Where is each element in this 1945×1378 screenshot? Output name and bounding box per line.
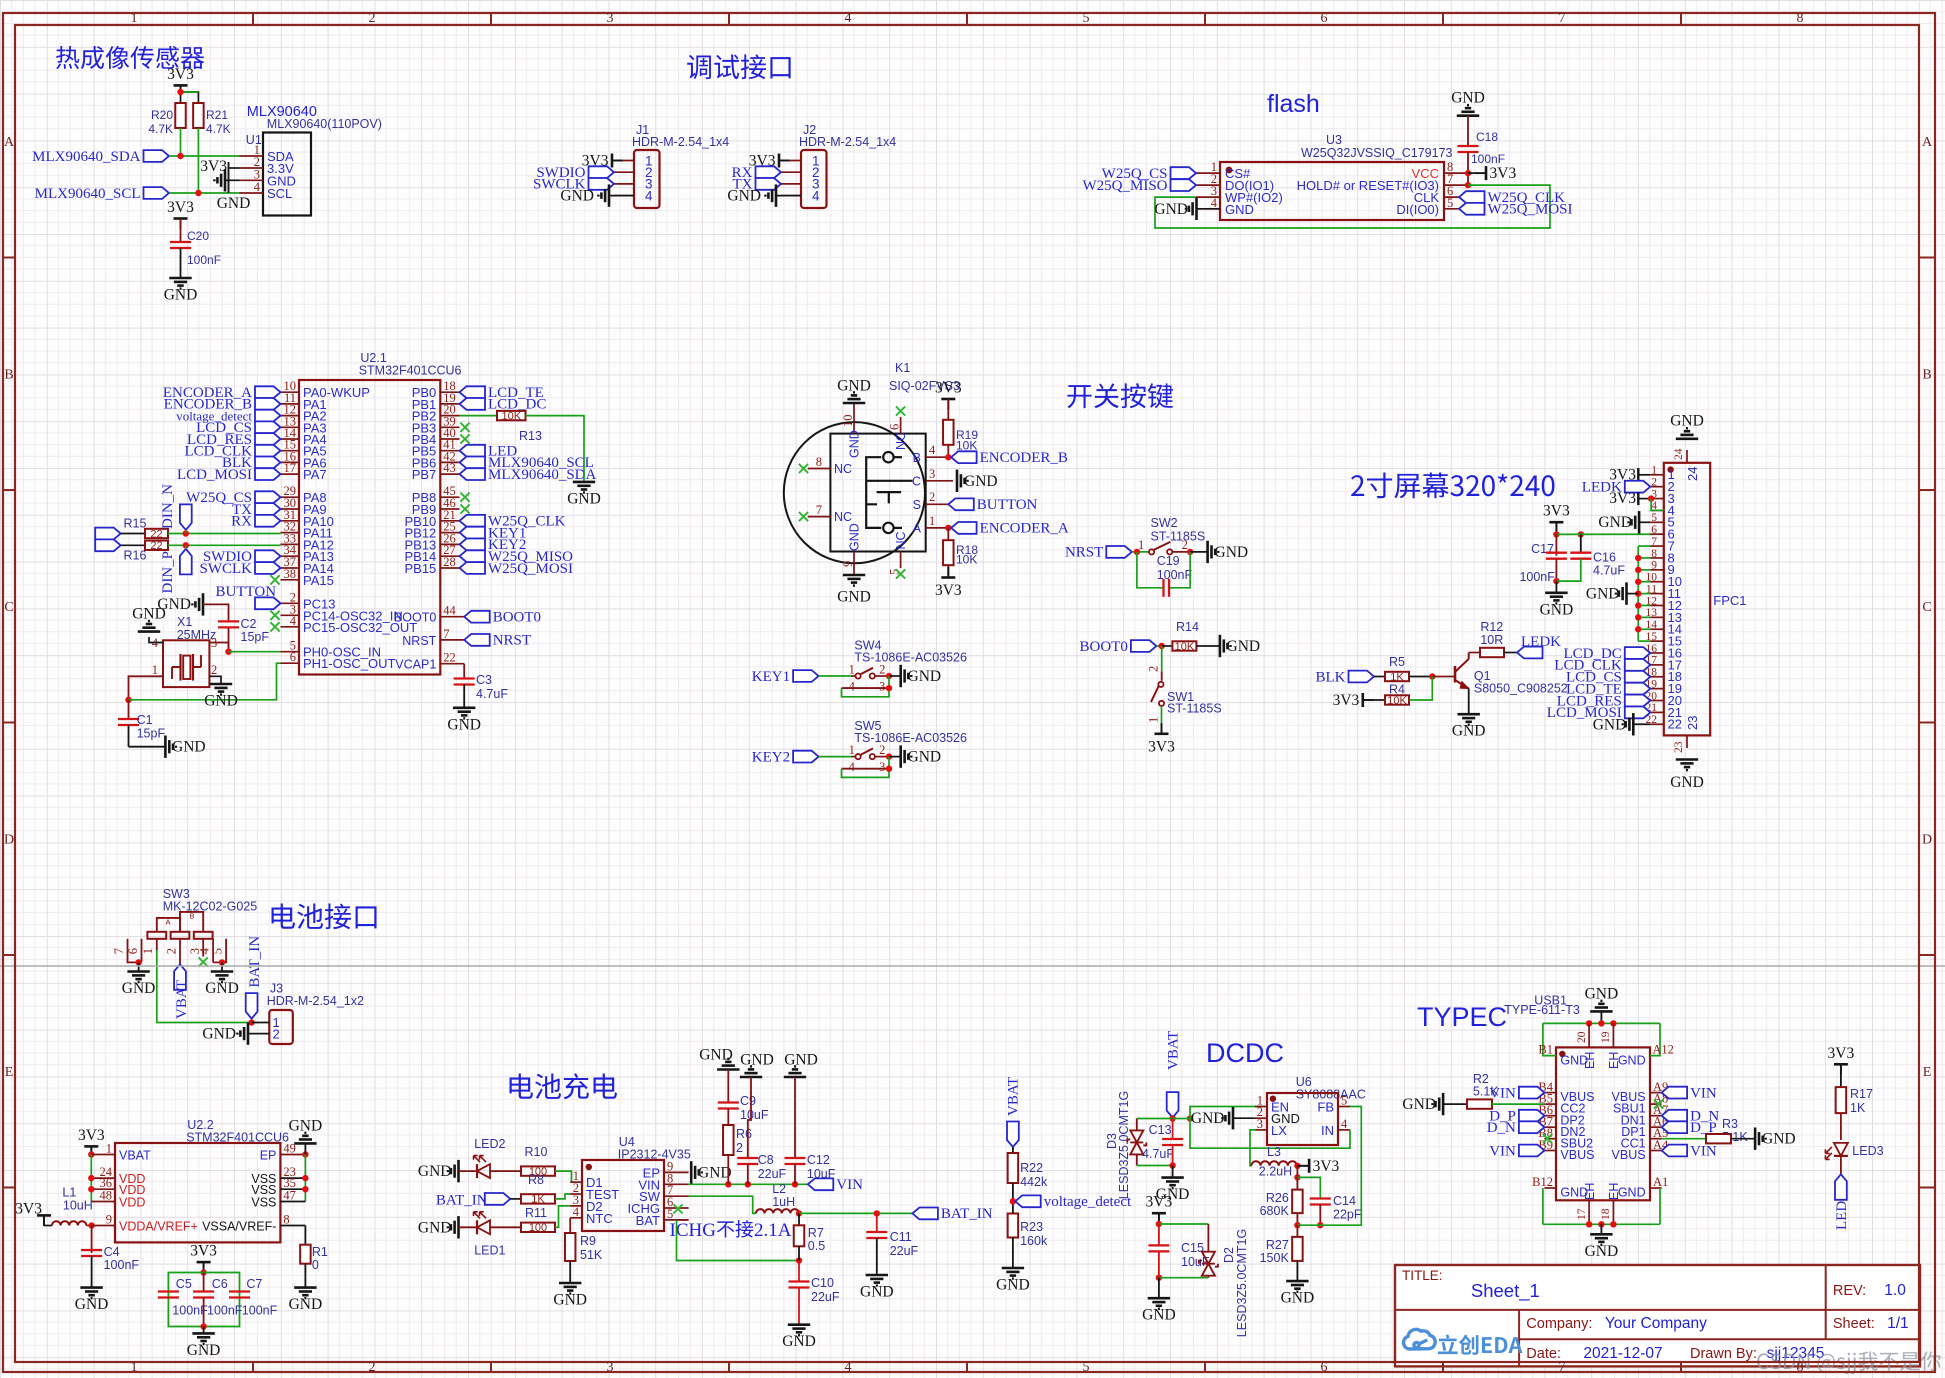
svg-text:10uH: 10uH: [63, 1198, 93, 1212]
capacitor C1 15pF: [128, 700, 130, 719]
net flag W25Q_CLK: [460, 515, 486, 527]
svg-text:R6: R6: [736, 1127, 752, 1141]
ground U6 pin2: [1233, 1117, 1255, 1119]
U1 pin 2 3.3V: [240, 167, 264, 169]
net flag NRST sw2: [1106, 546, 1132, 558]
U2.1 pin 21 PB10: [440, 520, 459, 522]
no-connect PB3: [460, 423, 469, 432]
svg-text:GND: GND: [1586, 586, 1620, 603]
svg-text:R11: R11: [525, 1206, 547, 1220]
FPC1 pin23 bottom: [1686, 735, 1688, 748]
svg-text:22: 22: [443, 651, 456, 665]
svg-text:R5: R5: [1389, 655, 1405, 669]
net flag VIN B9: [1519, 1145, 1545, 1157]
ground SW4: [889, 675, 901, 677]
svg-text:2: 2: [879, 743, 885, 757]
svg-text:RX: RX: [231, 514, 252, 530]
svg-text:W25Q_MOSI: W25Q_MOSI: [488, 561, 573, 577]
U2.1 pin 26 PB13: [440, 543, 459, 545]
net flag VIN A9: [1662, 1087, 1688, 1099]
K1 inner mechanism: [866, 457, 912, 528]
svg-text:D_N: D_N: [1487, 1120, 1516, 1136]
USB1 pin A9 VBUS: [1650, 1092, 1662, 1094]
svg-text:DI(IO0): DI(IO0): [1396, 202, 1439, 217]
ground above C8: [740, 1066, 762, 1077]
svg-text:100nF: 100nF: [187, 253, 221, 267]
capacitor C12 10uF: [785, 1157, 806, 1159]
USB1 pin B5 CC2: [1544, 1103, 1556, 1105]
ground above C18: [1457, 105, 1479, 116]
svg-text:GND: GND: [172, 739, 206, 756]
ground below R9: [559, 1283, 581, 1294]
U4 pin 9 EP: [664, 1171, 689, 1173]
FPC1 pin 20: [1650, 700, 1664, 702]
svg-text:NC: NC: [834, 510, 852, 524]
svg-text:1uH: 1uH: [772, 1195, 795, 1209]
ground fpc pin24: [1676, 428, 1698, 439]
U2.1 pin 4 PC15-OSC32_OUT: [281, 626, 300, 628]
svg-text:GND: GND: [1762, 1131, 1796, 1148]
svg-text:GND: GND: [1225, 202, 1254, 217]
net flag BAT_IN main: [912, 1208, 938, 1220]
ground top rail: [1590, 1001, 1612, 1012]
K1 pin7 NC left: [808, 516, 831, 518]
power flag 3V3 top: [174, 85, 188, 96]
U4 pin 5 BAT: [664, 1219, 689, 1221]
svg-text:47: 47: [283, 1189, 296, 1203]
svg-text:GND: GND: [964, 473, 998, 490]
resistor R23 160k: [1008, 1214, 1019, 1238]
U2.1 pin 42 PB6: [440, 461, 459, 463]
USB1 pin B9 VBUS: [1544, 1150, 1556, 1152]
svg-text:E: E: [1923, 1065, 1932, 1080]
no-connect PB9: [460, 504, 469, 513]
junction J3 pin1: [248, 1019, 254, 1025]
svg-text:GND: GND: [553, 1292, 587, 1309]
net flag D_N B7: [1519, 1121, 1545, 1133]
svg-text:1: 1: [849, 743, 855, 757]
svg-text:44: 44: [443, 604, 456, 618]
USB1 pin B4 VBUS: [1544, 1092, 1556, 1094]
svg-text:2.1A: 2.1A: [754, 1220, 792, 1241]
svg-text:GND: GND: [996, 1277, 1030, 1294]
svg-text:GND: GND: [164, 287, 198, 304]
junction VDDA: [88, 1222, 94, 1228]
U2.2 pin9 VDDA: [92, 1225, 115, 1227]
ground below C10: [788, 1325, 810, 1336]
junction fpc pin 12: [1635, 602, 1641, 608]
K1 pin3 C: [926, 480, 953, 482]
svg-text:43: 43: [443, 461, 456, 475]
power 3V3 R4: [1363, 693, 1374, 707]
svg-text:R1: R1: [312, 1245, 328, 1259]
junction 3V3 node: [177, 89, 183, 95]
svg-text:4.7uF: 4.7uF: [1142, 1147, 1174, 1161]
svg-text:PA15: PA15: [303, 573, 334, 588]
net flag SWDIO pin2: [589, 166, 615, 178]
svg-text:4: 4: [849, 679, 856, 693]
ground bottom: [1600, 1224, 1602, 1234]
ground above EP: [294, 1133, 316, 1144]
svg-text:3V3: 3V3: [15, 1201, 42, 1218]
page boundary gray line: [0, 965, 1945, 967]
net flag W25Q_CS: [1171, 167, 1197, 179]
svg-text:S: S: [913, 498, 921, 512]
junction SW4 pin2: [886, 673, 892, 679]
U2.1 pin 19 PB1: [440, 403, 459, 405]
resistor R20: [175, 103, 186, 128]
svg-text:22: 22: [150, 528, 162, 540]
svg-text:B12: B12: [1532, 1175, 1553, 1189]
svg-text:6: 6: [1321, 11, 1328, 26]
svg-text:TS-1086E-AC03526: TS-1086E-AC03526: [854, 650, 967, 664]
svg-text:22uF: 22uF: [890, 1244, 919, 1258]
USB1 pin A8 SBU1: [1650, 1103, 1662, 1105]
svg-text:6: 6: [290, 650, 296, 664]
J1 pin 1: [614, 160, 634, 162]
wire GND to C18: [1467, 116, 1469, 146]
net flag KEY1: [793, 670, 819, 682]
net flag VBAT r22: [1007, 1122, 1019, 1148]
ground below C5C6C7: [203, 1327, 205, 1334]
net flag NRST: [464, 634, 490, 646]
svg-text:GND: GND: [1618, 1186, 1646, 1200]
svg-text:VBUS: VBUS: [1560, 1148, 1594, 1162]
svg-text:GND: GND: [447, 716, 481, 733]
net flag VIN A4: [1662, 1145, 1688, 1157]
junction R6: [725, 1181, 731, 1187]
power 3V3 u22: [84, 1146, 98, 1157]
svg-text:ST-1185S: ST-1185S: [1151, 530, 1206, 544]
svg-text:22: 22: [1668, 717, 1682, 732]
power 3V3 J1 pin1: [612, 154, 623, 168]
net flag LCD_MOSI: [255, 468, 281, 480]
svg-text:3V3: 3V3: [935, 380, 962, 397]
wire junction to PH0 pin: [229, 651, 281, 653]
ground below R27: [1286, 1281, 1308, 1292]
net flag LCD_RES fpc: [1625, 695, 1651, 707]
junction VSS35: [302, 1186, 308, 1192]
U2.1 pin 12 PA2: [281, 415, 300, 417]
svg-text:C16: C16: [1593, 550, 1616, 564]
svg-text:3V3: 3V3: [78, 1127, 105, 1144]
svg-text:5: 5: [1083, 11, 1090, 26]
svg-text:PA7: PA7: [303, 467, 327, 482]
svg-text:GND: GND: [740, 1052, 774, 1069]
svg-text:GND: GND: [418, 1163, 452, 1180]
no-connect PB4: [460, 434, 469, 443]
svg-text:2: 2: [273, 1027, 280, 1042]
svg-text:LEDK: LEDK: [1521, 634, 1561, 650]
svg-text:5: 5: [1083, 1360, 1090, 1375]
capacitor C7: [229, 1290, 250, 1292]
USB1 pin A4 VBUS: [1650, 1150, 1662, 1152]
svg-text:4.7K: 4.7K: [148, 122, 173, 136]
resistor R19 10K: [943, 420, 954, 445]
USB1 pin A5 CC1: [1650, 1138, 1662, 1140]
svg-text:2: 2: [211, 663, 217, 677]
svg-text:NC: NC: [894, 432, 908, 450]
svg-text:R8: R8: [528, 1173, 544, 1187]
svg-text:MK-12C02-G025: MK-12C02-G025: [163, 900, 258, 914]
U3 pin 2 DO(IO1): [1196, 184, 1220, 186]
svg-text:DIN_N: DIN_N: [160, 484, 176, 529]
ground below R13: [573, 482, 595, 493]
svg-text:VIN: VIN: [1489, 1143, 1516, 1159]
U2.1 pin 3 PC14-OSC32_IN: [281, 614, 300, 616]
svg-text:5: 5: [667, 1207, 673, 1221]
K1 pin4 B: [926, 456, 949, 458]
svg-text:3: 3: [607, 1360, 614, 1375]
svg-text:R21: R21: [206, 108, 228, 122]
U3 pin 3 WP#(IO2): [1196, 196, 1220, 198]
svg-text:100nF: 100nF: [242, 1304, 278, 1318]
U2.1 pin 39 PB3: [440, 426, 459, 428]
wire SDA to U1 pin1: [169, 155, 240, 157]
svg-text:GND: GND: [1154, 201, 1188, 218]
svg-text:24: 24: [1673, 448, 1685, 460]
junction C17 top: [1553, 531, 1559, 537]
svg-text:4: 4: [573, 1205, 580, 1219]
power 3V3 dcdc out: [1297, 1165, 1309, 1167]
USB1 pin B12 GND: [1544, 1187, 1556, 1189]
svg-text:C: C: [4, 600, 13, 615]
FPC1 pin 12: [1650, 604, 1664, 606]
svg-text:Drawn By:: Drawn By:: [1690, 1346, 1757, 1362]
green bus pins 7-15: [1637, 546, 1639, 641]
ground R3: [1755, 1128, 1766, 1150]
junction fpc pin 13: [1635, 614, 1641, 620]
logo LCEDA text: [1438, 1334, 1522, 1354]
svg-text:GND: GND: [122, 980, 156, 997]
U2.1 pin 11 PA1: [281, 403, 300, 405]
svg-text:MLX90640_SDA: MLX90640_SDA: [488, 467, 597, 483]
svg-text:GND: GND: [1585, 985, 1619, 1002]
svg-text:GND: GND: [908, 749, 942, 766]
svg-text:LESD3Z5.0CMT1G: LESD3Z5.0CMT1G: [1117, 1091, 1131, 1199]
no-connect SBU2: [1543, 1134, 1552, 1143]
FPC1 pin 10: [1650, 581, 1664, 583]
net flag VIN: [808, 1178, 834, 1190]
wire VIN net: [689, 1183, 808, 1185]
K1 pin1 A: [926, 527, 949, 529]
svg-text:C12: C12: [807, 1153, 830, 1167]
svg-text:W25Q32JVSSIQ_C179173: W25Q32JVSSIQ_C179173: [1301, 146, 1453, 160]
USB1 pin B7 DN2: [1544, 1126, 1556, 1128]
wire to C14 top: [1297, 1177, 1320, 1199]
U2.2 pin 36 VDD: [91, 1188, 115, 1190]
svg-text:1: 1: [131, 1360, 138, 1375]
U2.1 pin 16 PA6: [281, 461, 300, 463]
U2.1 pin 15 PA5: [281, 450, 300, 452]
wire D2 bottom rail: [1159, 1277, 1209, 1279]
resistor R7 0.5: [798, 1213, 800, 1225]
svg-text:GND: GND: [1142, 1307, 1176, 1324]
J2 pin 3: [781, 183, 801, 185]
svg-text:E: E: [5, 1065, 14, 1080]
net flag KEY1: [460, 527, 486, 539]
svg-text:8: 8: [816, 455, 822, 469]
svg-text:2021-12-07: 2021-12-07: [1583, 1345, 1662, 1362]
svg-text:W25Q_MOSI: W25Q_MOSI: [1488, 202, 1573, 218]
svg-text:18: 18: [1600, 1208, 1612, 1220]
svg-text:5.1K: 5.1K: [1473, 1085, 1499, 1099]
section title 开关按键: [1067, 383, 1173, 408]
svg-text:2.2uH: 2.2uH: [1259, 1165, 1292, 1179]
svg-text:A12: A12: [1652, 1043, 1674, 1057]
junction L3 out: [1294, 1163, 1300, 1169]
svg-text:22uF: 22uF: [811, 1290, 840, 1304]
svg-text:C4: C4: [104, 1245, 120, 1259]
svg-text:VBAT: VBAT: [174, 980, 190, 1019]
svg-text:GND: GND: [1670, 774, 1704, 791]
svg-text:R12: R12: [1480, 620, 1503, 634]
U4 pin 4 NTC: [570, 1217, 582, 1219]
svg-text:VBAT: VBAT: [119, 1149, 151, 1163]
wire KEY1 to switch: [819, 675, 851, 677]
svg-text:GND: GND: [1191, 1110, 1225, 1127]
U2.1 pin 38 PA15: [281, 579, 300, 581]
svg-text:VSSA/VREF-: VSSA/VREF-: [202, 1220, 276, 1234]
junction voltage_detect: [1010, 1198, 1016, 1204]
FPC1 pin 5: [1650, 521, 1664, 523]
junction pin3/pin4: [1648, 495, 1654, 501]
ground below C4: [80, 1288, 102, 1299]
net flag D_P A6: [1662, 1121, 1688, 1133]
FPC1 pin 16: [1650, 652, 1664, 654]
FPC1 pin 1: [1650, 474, 1664, 476]
FPC1 pin 19: [1650, 688, 1664, 690]
net flag D_N A7: [1662, 1110, 1688, 1122]
svg-text:C7: C7: [246, 1277, 262, 1291]
net flag LEDK right: [1517, 647, 1543, 659]
svg-text:9: 9: [1651, 560, 1657, 572]
wire R2 to CC2: [1492, 1103, 1544, 1105]
junction SW5 pin3: [886, 766, 892, 772]
FPC1 pin 7: [1650, 545, 1664, 547]
net flag ENCODER_B: [951, 451, 977, 463]
svg-text:GND: GND: [1585, 1243, 1619, 1260]
U6 pin 5 FB: [1338, 1106, 1350, 1108]
U2.1 pin 6 PH1-OSC_OUT: [281, 662, 300, 664]
U2.1 pin 17 PA7: [281, 473, 300, 475]
svg-text:8: 8: [1651, 548, 1657, 560]
svg-text:3V3: 3V3: [1828, 1045, 1855, 1062]
U4 pin 2 TEST: [570, 1193, 582, 1195]
svg-text:GND: GND: [1593, 716, 1627, 733]
ground below C20: [169, 278, 191, 289]
svg-text:10K: 10K: [1175, 641, 1195, 653]
svg-text:C17: C17: [1531, 542, 1554, 556]
svg-text:L2: L2: [772, 1182, 786, 1196]
ground SW2: [1190, 551, 1208, 553]
svg-text:GND: GND: [289, 1296, 323, 1313]
no-connect PA15: [270, 575, 279, 584]
svg-text:1K: 1K: [1390, 671, 1404, 683]
U2.1 pin 33 PA12: [281, 543, 300, 545]
svg-text:GND: GND: [698, 1164, 732, 1181]
K1 pin10 GND top: [853, 403, 855, 434]
svg-text:100nF: 100nF: [1471, 152, 1505, 166]
svg-text:TS-1086E-AC03526: TS-1086E-AC03526: [854, 731, 967, 745]
svg-text:3: 3: [1257, 1117, 1263, 1131]
FPC1 pin 14: [1650, 628, 1664, 630]
svg-text:C15: C15: [1181, 1241, 1204, 1255]
ground J2 pin4: [765, 184, 776, 206]
svg-text:R13: R13: [519, 429, 542, 443]
svg-text:BAT_IN: BAT_IN: [436, 1193, 488, 1209]
svg-text:7: 7: [1651, 536, 1657, 548]
svg-text:D2: D2: [1222, 1247, 1236, 1263]
svg-text:3V3: 3V3: [167, 199, 194, 216]
svg-text:K1: K1: [895, 361, 910, 375]
svg-text:38: 38: [284, 567, 297, 581]
svg-text:17: 17: [284, 461, 297, 475]
svg-text:3: 3: [879, 679, 885, 693]
LED3: [1834, 1155, 1848, 1157]
U2.1 pin 7 NRST: [440, 639, 464, 641]
junction VDD24: [88, 1175, 94, 1181]
svg-text:442k: 442k: [1020, 1175, 1048, 1189]
svg-text:A: A: [913, 522, 922, 536]
svg-text:C13: C13: [1149, 1123, 1172, 1137]
svg-text:1: 1: [849, 662, 855, 676]
svg-text:22pF: 22pF: [1333, 1208, 1362, 1222]
U2.1 pin 27 PB14: [440, 555, 459, 557]
capacitor C14: [1310, 1197, 1331, 1199]
junction C17 bottom: [1553, 578, 1559, 584]
junction C14 bottom: [1317, 1222, 1323, 1228]
svg-text:GND: GND: [1402, 1096, 1436, 1113]
svg-text:4: 4: [254, 180, 261, 194]
capacitor C3 4.7uF on VCAP1: [463, 664, 465, 679]
power 3V3 below R18: [941, 567, 955, 578]
svg-text:GND: GND: [1560, 1053, 1588, 1067]
svg-text:X1: X1: [177, 615, 192, 629]
svg-text:4.7uF: 4.7uF: [1593, 564, 1625, 578]
capacitor C15 10uF: [1158, 1224, 1160, 1245]
FPC1 pin 13: [1650, 616, 1664, 618]
U2.1 pin 28 PB15: [440, 567, 459, 569]
U2.1 pin 32 PA11: [281, 532, 300, 534]
svg-text:160k: 160k: [1020, 1234, 1048, 1248]
junction VSS23: [302, 1175, 308, 1181]
svg-text:3: 3: [607, 11, 614, 26]
K1 pin5 NC bottom: [900, 552, 902, 569]
net flag BLK: [255, 457, 281, 469]
svg-text:GND: GND: [782, 1333, 816, 1350]
svg-text:1: 1: [1147, 717, 1161, 723]
junction C6 top: [200, 1269, 206, 1275]
svg-text:3: 3: [879, 760, 885, 774]
ground fpc pin22: [1623, 713, 1634, 735]
svg-text:BOOT0: BOOT0: [493, 610, 541, 626]
svg-text:KEY2: KEY2: [752, 749, 790, 765]
svg-text:MLX90640(110POV): MLX90640(110POV): [267, 117, 382, 131]
svg-text:Sheet:: Sheet:: [1833, 1316, 1875, 1332]
junction VBAT/C13: [1169, 1115, 1175, 1121]
net flag BOOT0: [464, 611, 490, 623]
svg-text:7: 7: [112, 948, 126, 954]
FPC1 pin 22: [1650, 723, 1664, 725]
resistor R21: [193, 103, 204, 128]
net flag W25Q_CLK: [1459, 191, 1485, 203]
U2.1 pin 44 BOOT0: [440, 616, 464, 618]
power 3V3 C5-C7: [197, 1262, 211, 1273]
SW3 pin5: [225, 939, 227, 959]
green box C5C6C7: [168, 1273, 239, 1327]
ground below C13: [1172, 1166, 1174, 1178]
